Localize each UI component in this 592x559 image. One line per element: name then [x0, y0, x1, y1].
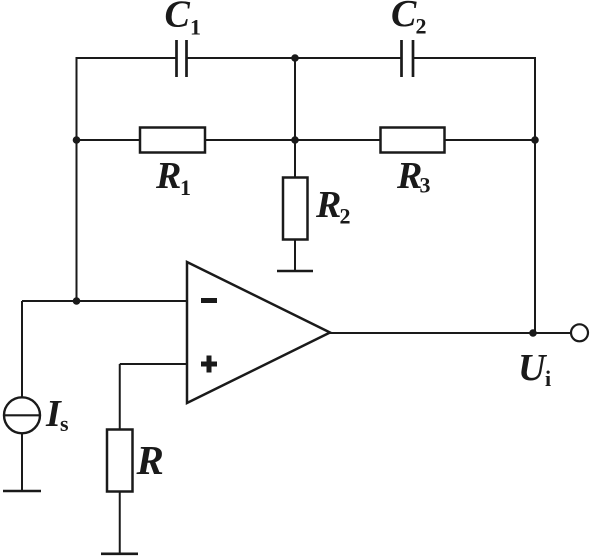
wire inverting input (Is node to op-amp)	[22, 300, 187, 302]
wire R1 row left	[77, 139, 141, 141]
op-amp minus pin label	[201, 298, 217, 303]
resistor R	[107, 430, 133, 492]
resistor R1	[140, 128, 205, 153]
terminal Ui open circle	[571, 324, 588, 341]
svg-text:U: U	[518, 347, 548, 389]
svg-text:R: R	[315, 184, 341, 226]
svg-text:2: 2	[340, 204, 351, 229]
node right rail / R3 row	[531, 136, 539, 144]
op-amp plus pin label	[201, 356, 217, 373]
wire top left: left rail corner to C1	[77, 57, 177, 59]
capacitor C1	[177, 40, 187, 77]
node inverting input	[73, 297, 81, 305]
wire middle vertical (top node down to R2)	[294, 58, 296, 178]
wire R2 to ground	[294, 239, 296, 270]
svg-text:2: 2	[416, 14, 427, 39]
svg-text:R: R	[155, 155, 181, 197]
svg-text:R: R	[396, 155, 422, 197]
wire non-inverting input	[120, 363, 187, 365]
svg-text:1: 1	[180, 175, 191, 200]
node middle / R2 top	[291, 136, 299, 144]
wire R bottom lead	[119, 491, 121, 553]
capacitor C2	[402, 40, 414, 77]
wire output	[329, 332, 570, 334]
wire left rail	[76, 57, 78, 301]
svg-text:s: s	[60, 411, 69, 436]
current source Is	[4, 397, 40, 433]
resistor R2	[283, 178, 308, 240]
svg-text:3: 3	[420, 173, 431, 198]
ground (below Is)	[3, 490, 41, 493]
wire R3 to right rail	[444, 139, 536, 141]
wire current source bottom lead	[21, 433, 23, 490]
wire C1 to top node	[186, 57, 401, 59]
svg-text:i: i	[545, 366, 551, 391]
wire current source top lead	[21, 301, 23, 397]
resistor R3	[381, 128, 445, 153]
wire C2 to right rail corner	[413, 57, 536, 59]
node left rail / R1 row	[73, 136, 81, 144]
svg-text:R: R	[136, 437, 164, 483]
ground (below R)	[101, 552, 138, 555]
op-amp U1	[187, 262, 330, 403]
wire down to R	[119, 364, 121, 430]
ground (below R2)	[277, 270, 313, 273]
node top middle	[291, 54, 299, 62]
wire R1 to R3	[205, 139, 381, 141]
wire right rail	[534, 57, 536, 333]
svg-text:C: C	[391, 0, 417, 35]
node output / right rail	[529, 329, 537, 337]
svg-text:C: C	[165, 0, 191, 36]
svg-text:1: 1	[190, 15, 201, 40]
